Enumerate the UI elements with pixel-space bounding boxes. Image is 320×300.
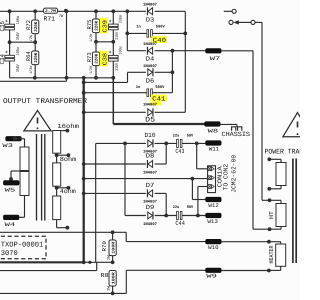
svg-text:C38: C38 bbox=[102, 52, 109, 65]
svg-text:C41: C41 bbox=[152, 95, 166, 102]
svg-text:330u: 330u bbox=[119, 15, 124, 23]
svg-text:1N4007: 1N4007 bbox=[143, 3, 158, 8]
svg-text:100R: 100R bbox=[111, 272, 116, 284]
svg-text:OUTPUT TRANSFORMER: OUTPUT TRANSFORMER bbox=[3, 98, 88, 106]
svg-text:POWER TRANSFORMER: POWER TRANSFORMER bbox=[265, 148, 301, 156]
svg-text:R73: R73 bbox=[86, 52, 93, 63]
svg-text:7W: 7W bbox=[59, 14, 64, 19]
svg-text:W4: W4 bbox=[5, 221, 16, 228]
svg-text:1N4007: 1N4007 bbox=[143, 64, 158, 69]
svg-text:315V: 315V bbox=[115, 32, 120, 40]
svg-text:D7: D7 bbox=[146, 182, 155, 189]
svg-text:R70: R70 bbox=[101, 240, 108, 251]
svg-text:W3: W3 bbox=[2, 142, 13, 149]
svg-text:D5: D5 bbox=[145, 116, 155, 124]
svg-text:50V: 50V bbox=[187, 133, 194, 138]
svg-text:350V: 350V bbox=[16, 32, 21, 40]
svg-text:W8: W8 bbox=[208, 127, 219, 134]
svg-text:D6: D6 bbox=[146, 78, 155, 85]
svg-text:R71: R71 bbox=[44, 16, 56, 23]
svg-text:D4: D4 bbox=[146, 56, 155, 63]
svg-text:500V: 500V bbox=[156, 24, 166, 29]
svg-text:C39: C39 bbox=[102, 20, 109, 33]
svg-text:TO CON2: TO CON2 bbox=[223, 164, 230, 191]
svg-text:1N4007: 1N4007 bbox=[143, 42, 158, 47]
svg-text:R8: R8 bbox=[101, 272, 109, 279]
svg-text:C34: C34 bbox=[0, 54, 6, 65]
svg-text:22u: 22u bbox=[173, 133, 180, 138]
svg-text:R72: R72 bbox=[25, 19, 32, 30]
svg-text:4ohm: 4ohm bbox=[60, 188, 76, 195]
svg-text:W13: W13 bbox=[207, 218, 218, 225]
svg-text:R75: R75 bbox=[86, 19, 93, 30]
svg-text:220K: 220K bbox=[34, 52, 39, 62]
svg-text:W11: W11 bbox=[209, 146, 220, 153]
svg-text:W10: W10 bbox=[208, 244, 219, 251]
svg-text:100R: 100R bbox=[111, 241, 116, 254]
svg-text:+: + bbox=[109, 19, 112, 24]
svg-text:C44: C44 bbox=[175, 220, 185, 227]
svg-text:330u: 330u bbox=[119, 46, 124, 54]
svg-text:CHASSIS: CHASSIS bbox=[222, 131, 251, 138]
svg-text:1/2W: 1/2W bbox=[29, 65, 34, 74]
svg-text:2.7M: 2.7M bbox=[45, 9, 57, 14]
svg-text:1/2W: 1/2W bbox=[89, 33, 94, 42]
svg-text:3070: 3070 bbox=[1, 250, 18, 258]
svg-text:JCM2-62-00: JCM2-62-00 bbox=[231, 155, 238, 193]
svg-text:C43: C43 bbox=[175, 148, 184, 155]
svg-text:1/2W: 1/2W bbox=[89, 65, 94, 74]
svg-text:W12: W12 bbox=[208, 202, 219, 209]
svg-text:TXOP-00001: TXOP-00001 bbox=[1, 242, 44, 250]
svg-text:220K: 220K bbox=[95, 53, 100, 63]
svg-text:D10: D10 bbox=[145, 132, 156, 139]
svg-text:W5: W5 bbox=[5, 186, 16, 193]
svg-text:8ohm: 8ohm bbox=[60, 156, 77, 163]
svg-text:W9: W9 bbox=[206, 273, 217, 280]
svg-text:HEATER: HEATER bbox=[268, 245, 275, 263]
svg-text:1W: 1W bbox=[107, 255, 112, 261]
svg-text:1N4007: 1N4007 bbox=[143, 102, 158, 107]
svg-text:350V: 350V bbox=[16, 64, 21, 72]
svg-text:16ohm: 16ohm bbox=[57, 123, 79, 130]
svg-text:HT: HT bbox=[268, 210, 275, 219]
svg-text:220K: 220K bbox=[34, 21, 39, 31]
svg-text:100u: 100u bbox=[16, 16, 21, 24]
svg-text:C35: C35 bbox=[0, 21, 6, 32]
svg-text:220K: 220K bbox=[95, 20, 100, 30]
svg-text:D9: D9 bbox=[146, 204, 155, 211]
svg-text:1W: 1W bbox=[107, 285, 112, 291]
svg-text:D3: D3 bbox=[146, 16, 155, 23]
svg-text:500V: 500V bbox=[155, 85, 165, 90]
svg-text:D8: D8 bbox=[146, 153, 155, 160]
svg-text:100u: 100u bbox=[16, 47, 21, 55]
svg-text:R64: R64 bbox=[25, 51, 32, 62]
svg-text:315V: 315V bbox=[115, 63, 120, 71]
svg-text:1N4007: 1N4007 bbox=[143, 222, 158, 227]
svg-text:50V: 50V bbox=[187, 205, 194, 210]
svg-text:+: + bbox=[109, 51, 112, 56]
svg-text:1N4007: 1N4007 bbox=[143, 170, 158, 175]
svg-text:22u: 22u bbox=[173, 205, 180, 210]
svg-text:W7: W7 bbox=[210, 55, 221, 62]
svg-text:1n: 1n bbox=[136, 24, 141, 29]
svg-text:1n: 1n bbox=[136, 85, 141, 90]
